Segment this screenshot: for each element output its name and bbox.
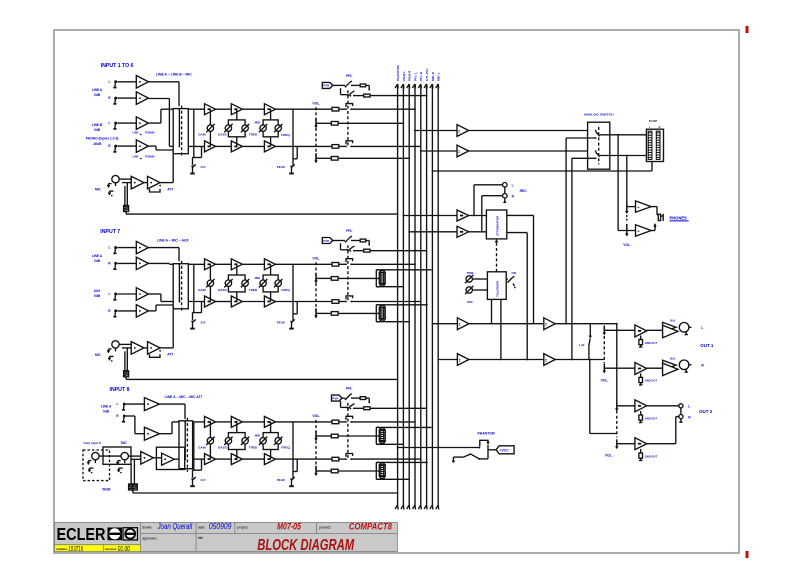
- svg-text:Σ: Σ: [459, 358, 461, 362]
- svg-text:PEAK: PEAK: [277, 478, 286, 482]
- svg-text:ANALOG SWITCH: ANALOG SWITCH: [584, 113, 614, 117]
- svg-text:AUX: AUX: [94, 289, 102, 293]
- svg-text:S.P.: S.P.: [201, 165, 206, 169]
- svg-text:R: R: [659, 126, 661, 129]
- svg-text:PHONO: PHONO: [145, 155, 155, 159]
- svg-text:LINE A – MIC – MIC ATT: LINE A – MIC – MIC ATT: [165, 395, 204, 399]
- svg-text:L: L: [109, 246, 111, 250]
- svg-text:version:: version:: [105, 547, 117, 551]
- svg-text:L: L: [109, 80, 111, 84]
- svg-text:PGM-R: PGM-R: [408, 70, 412, 81]
- svg-text:PVR: PVR: [323, 84, 329, 88]
- svg-text:Σ: Σ: [458, 150, 460, 154]
- svg-text:MIC: MIC: [121, 441, 128, 445]
- svg-text:LINE A – MIC – AUX: LINE A – MIC – AUX: [157, 238, 189, 242]
- svg-text:PFL: PFL: [346, 387, 352, 391]
- svg-text:title: title: [198, 536, 203, 540]
- svg-text:L+R: L+R: [579, 343, 585, 347]
- svg-text:MID: MID: [255, 433, 261, 437]
- svg-text:L: L: [109, 292, 111, 296]
- svg-text:GND OUT: GND OUT: [645, 416, 658, 420]
- svg-text:TREB: TREB: [249, 445, 258, 449]
- svg-text:BASS: BASS: [218, 288, 226, 292]
- svg-text:PEAK: PEAK: [277, 320, 286, 324]
- svg-text:0dB: 0dB: [94, 93, 101, 97]
- svg-text:LINE A – LINE B – MIC: LINE A – LINE B – MIC: [156, 73, 192, 77]
- svg-text:INPUT 8: INPUT 8: [110, 387, 130, 393]
- svg-text:Σ: Σ: [545, 358, 547, 362]
- svg-text:REC: REC: [520, 189, 528, 193]
- svg-text:ECLER: ECLER: [57, 524, 106, 544]
- svg-text:+VCC: +VCC: [500, 448, 510, 452]
- svg-text:0dB: 0dB: [103, 409, 110, 413]
- svg-text:MIC-R: MIC-R: [431, 71, 435, 81]
- svg-text:Σ: Σ: [458, 129, 460, 133]
- svg-text:VOL.: VOL.: [312, 102, 320, 106]
- svg-text:10.0716: 10.0716: [69, 544, 84, 553]
- svg-text:approved: approved: [142, 536, 156, 540]
- svg-text:050909: 050909: [209, 521, 232, 531]
- svg-text:S.P.: S.P.: [201, 320, 206, 324]
- svg-text:BASS: BASS: [218, 445, 226, 449]
- svg-text:PHONO (Inputs 1-2-3): PHONO (Inputs 1-2-3): [86, 137, 119, 141]
- svg-text:VOL.: VOL.: [601, 379, 609, 383]
- svg-text:L: L: [109, 121, 111, 125]
- svg-text:BAL: BAL: [670, 319, 676, 323]
- svg-text:0dB: 0dB: [94, 128, 101, 132]
- svg-text:BLOCK DIAGRAM: BLOCK DIAGRAM: [257, 537, 354, 554]
- svg-text:GAIN: GAIN: [198, 133, 206, 137]
- svg-text:MID: MID: [255, 121, 261, 125]
- svg-text:MID: MID: [255, 276, 261, 280]
- svg-text:CTL-PFL: CTL-PFL: [425, 68, 429, 81]
- svg-text:0dB: 0dB: [94, 294, 101, 298]
- svg-text:INPUT 1 TO 6: INPUT 1 TO 6: [101, 63, 134, 69]
- svg-text:GND OUT: GND OUT: [645, 379, 658, 383]
- svg-text:-50dB: -50dB: [102, 487, 112, 491]
- svg-text:PFL-L: PFL-L: [413, 72, 417, 81]
- svg-text:project: project: [237, 526, 247, 530]
- svg-text:PHONES: PHONES: [670, 216, 688, 221]
- svg-text:LINE A: LINE A: [92, 88, 103, 92]
- svg-text:L: L: [512, 184, 514, 188]
- svg-text:Σ: Σ: [459, 323, 461, 327]
- svg-text:Σ: Σ: [545, 323, 547, 327]
- svg-text:TIME: TIME: [466, 271, 473, 275]
- svg-text:PVR: PVR: [333, 396, 339, 400]
- svg-text:FREQ.: FREQ.: [281, 288, 290, 292]
- svg-text:OUT 1: OUT 1: [700, 343, 714, 348]
- svg-text:FREQ.: FREQ.: [281, 133, 290, 137]
- svg-text:VOL.: VOL.: [312, 257, 320, 261]
- svg-text:OUT 2: OUT 2: [699, 409, 713, 414]
- svg-text:PEAK: PEAK: [277, 165, 286, 169]
- svg-text:0dB: 0dB: [94, 259, 101, 263]
- svg-text:VOL.: VOL.: [312, 414, 320, 418]
- svg-text:PGM-L: PGM-L: [402, 71, 406, 81]
- svg-text:MIC: MIC: [95, 353, 102, 357]
- svg-text:L: L: [701, 326, 703, 330]
- svg-text:FREQ.: FREQ.: [281, 446, 290, 450]
- svg-text:ATT: ATT: [167, 353, 173, 357]
- svg-text:PFL-R: PFL-R: [419, 71, 423, 81]
- svg-text:ATT: ATT: [167, 187, 173, 191]
- svg-text:ON: ON: [512, 271, 517, 275]
- svg-text:LINE A: LINE A: [92, 254, 103, 258]
- svg-text:BAL: BAL: [670, 356, 676, 360]
- svg-text:PHONO: PHONO: [145, 131, 155, 135]
- svg-text:GAIN: GAIN: [198, 288, 206, 292]
- svg-text:OFF: OFF: [467, 300, 473, 304]
- svg-text:VOL.: VOL.: [623, 243, 631, 247]
- svg-text:MIC-L: MIC-L: [437, 72, 441, 81]
- svg-text:drawn:: drawn:: [142, 526, 152, 530]
- svg-text:VOL.: VOL.: [605, 454, 613, 458]
- svg-text:MIC: MIC: [95, 188, 102, 192]
- svg-text:PHANTOM: PHANTOM: [478, 431, 495, 435]
- svg-text:01.00: 01.00: [118, 544, 130, 553]
- svg-text:PL/SP: PL/SP: [649, 119, 657, 123]
- svg-text:number:: number:: [56, 547, 68, 551]
- svg-text:LINE: LINE: [133, 131, 139, 135]
- svg-text:PFL: PFL: [346, 229, 352, 233]
- svg-text:GND OUT: GND OUT: [645, 454, 658, 458]
- svg-text:L: L: [688, 405, 690, 409]
- svg-text:TREB: TREB: [249, 133, 258, 137]
- svg-text:TREB: TREB: [249, 288, 258, 292]
- svg-text:S.P.: S.P.: [201, 478, 206, 482]
- svg-text:LINE: LINE: [133, 155, 139, 159]
- svg-text:GND OUT: GND OUT: [645, 341, 658, 345]
- svg-text:BASS: BASS: [218, 133, 226, 137]
- svg-text:GAIN: GAIN: [198, 445, 206, 449]
- svg-text:Only Input 8: Only Input 8: [84, 441, 102, 445]
- svg-text:Joan Queralt: Joan Queralt: [157, 521, 193, 531]
- svg-text:ATTENUATOR: ATTENUATOR: [496, 215, 500, 236]
- svg-text:COMPACT8: COMPACT8: [349, 521, 393, 531]
- svg-text:PFL: PFL: [346, 74, 352, 78]
- svg-text:LINE A: LINE A: [101, 405, 112, 409]
- svg-text:M07-05: M07-05: [277, 521, 302, 531]
- svg-text:L: L: [117, 402, 119, 406]
- svg-text:PVR: PVR: [323, 239, 329, 243]
- svg-text:date:: date:: [198, 526, 206, 530]
- svg-text:INPUT 7: INPUT 7: [100, 229, 120, 235]
- svg-text:PHANTOM: PHANTOM: [396, 65, 400, 81]
- svg-text:TALKOVER: TALKOVER: [496, 280, 500, 297]
- svg-text:-40dB: -40dB: [93, 142, 103, 146]
- svg-text:LINE B: LINE B: [92, 123, 103, 127]
- svg-text:product:: product:: [319, 526, 331, 530]
